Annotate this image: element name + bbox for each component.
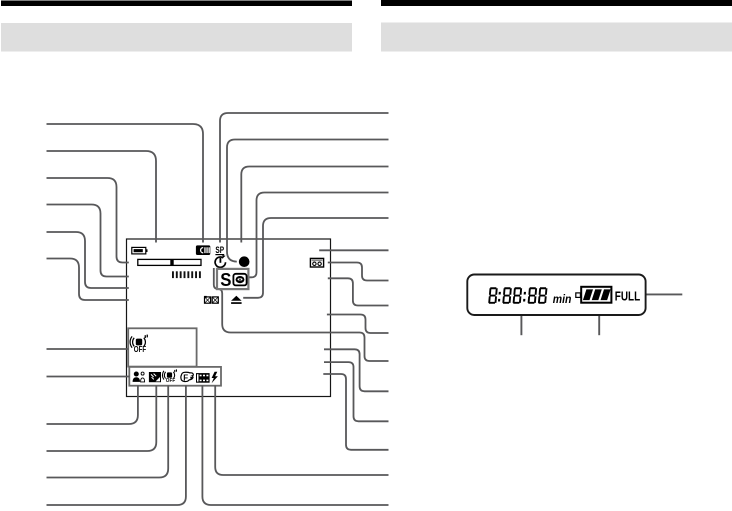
- svg-text:SP: SP: [215, 244, 224, 255]
- svg-text:OFF: OFF: [166, 378, 176, 384]
- svg-text:min: min: [553, 292, 572, 306]
- svg-text:F: F: [183, 374, 188, 383]
- svg-text:S: S: [220, 269, 231, 290]
- svg-text:OFF: OFF: [134, 344, 146, 354]
- svg-text:FULL: FULL: [615, 288, 640, 303]
